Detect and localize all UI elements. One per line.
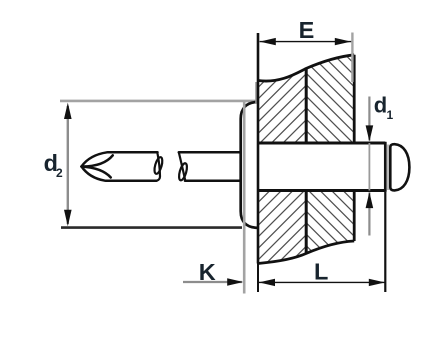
mandrel stem left segment with point xyxy=(82,152,158,180)
workpiece block left edge / flange right face / L left extension xyxy=(257,33,260,264)
svg-text:2: 2 xyxy=(56,166,63,180)
hatching upper-right plate xyxy=(240,0,380,337)
hatching lower-left plate xyxy=(11,30,426,300)
d2 arrow down xyxy=(64,210,72,226)
svg-text:E: E xyxy=(299,17,315,43)
d1 upper arrow (down) xyxy=(366,125,374,141)
K arrow (right) xyxy=(227,278,243,285)
E dimension line xyxy=(260,41,352,43)
svg-text:K: K xyxy=(199,259,216,285)
workpiece block top curve xyxy=(258,55,354,81)
workpiece block right edge lower xyxy=(353,190,356,241)
workpiece block bottom curve xyxy=(258,241,354,264)
svg-text:d: d xyxy=(374,92,387,117)
E left arrow xyxy=(260,38,276,45)
mandrel stem right segment xyxy=(179,152,241,180)
hatching lower-right plate xyxy=(240,0,380,337)
d1 dimension line crossing the tube xyxy=(368,143,370,191)
workpiece block right edge upper xyxy=(353,55,356,143)
L dimension line xyxy=(259,281,385,283)
K dimension line xyxy=(183,281,242,283)
d2 arrow up xyxy=(64,103,72,119)
rivet body tube end face xyxy=(384,142,387,192)
rivet flange (set head) xyxy=(241,102,258,228)
gray ghost strip below block top-left corner xyxy=(255,82,257,103)
svg-text:1: 1 xyxy=(387,108,394,122)
plate divider line upper xyxy=(305,68,308,143)
L right extension line xyxy=(384,192,386,292)
d1 dimension upper line xyxy=(368,97,370,141)
d1 dimension lower line xyxy=(368,193,370,236)
E right extension line xyxy=(351,33,353,83)
gap shading between tube end and mandrel head xyxy=(387,145,389,191)
d2 bottom extension line xyxy=(61,226,242,229)
L right arrow xyxy=(369,279,385,286)
L left arrow xyxy=(259,279,275,286)
d2 dimension line xyxy=(67,106,69,224)
mandrel head xyxy=(390,144,409,190)
svg-text:L: L xyxy=(314,259,328,285)
rivet body tube top line xyxy=(258,142,385,145)
hatching upper-left plate xyxy=(11,30,426,300)
plate divider line lower xyxy=(305,190,308,252)
d2 top extension line xyxy=(60,100,258,103)
break symbol on right segment xyxy=(177,152,188,181)
break symbol on left segment xyxy=(153,152,164,180)
E right arrow xyxy=(335,38,351,45)
d1 lower arrow (up) xyxy=(366,192,374,208)
rivet body tube bottom line xyxy=(258,189,385,192)
K extension line through flange (gray) xyxy=(243,102,246,294)
